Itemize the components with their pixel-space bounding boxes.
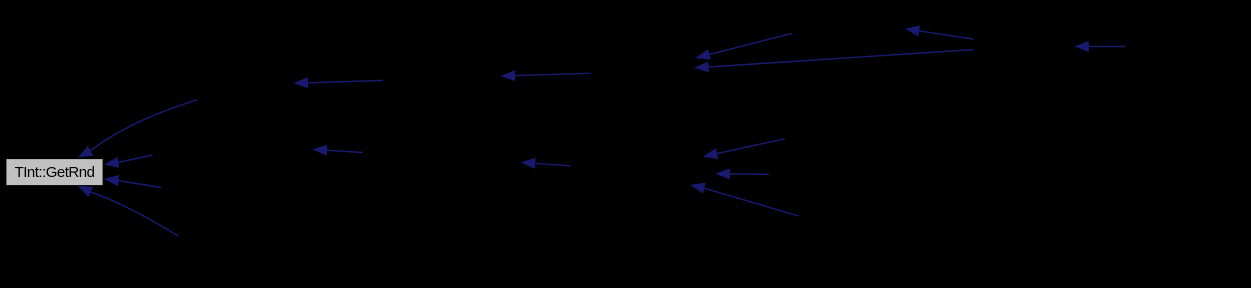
edge L xyxy=(78,100,197,158)
edge J xyxy=(715,168,768,179)
edge M xyxy=(104,155,153,168)
edge N xyxy=(104,175,161,188)
svg-text:TInt::GetRnd: TInt::GetRnd xyxy=(15,164,95,181)
edge O xyxy=(78,186,179,236)
edge D xyxy=(1074,41,1125,52)
edge B xyxy=(905,26,974,40)
edge I xyxy=(703,139,785,159)
node TInt::GetRnd xyxy=(6,159,103,186)
edge K xyxy=(690,183,799,216)
edge A xyxy=(695,34,791,60)
edge C xyxy=(694,50,973,73)
edge F xyxy=(501,70,591,81)
edge H xyxy=(521,158,571,169)
edge G xyxy=(313,145,364,156)
edge E xyxy=(294,77,384,88)
